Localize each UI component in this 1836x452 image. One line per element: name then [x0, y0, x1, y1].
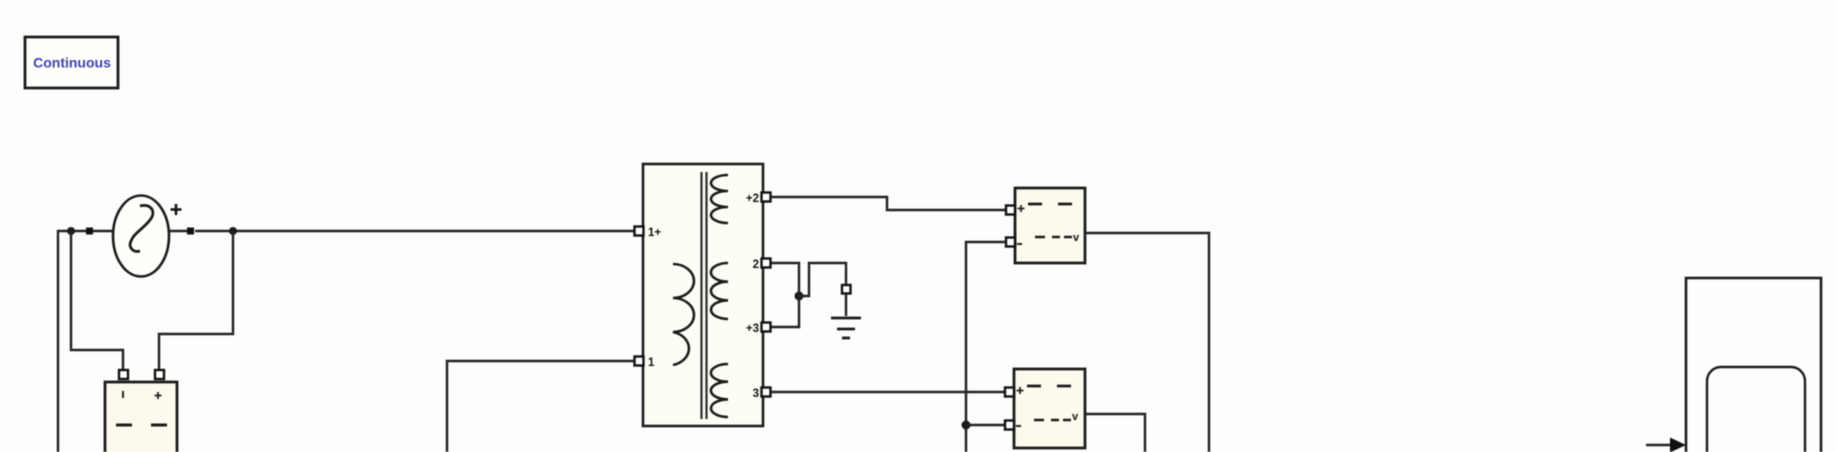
ground G1	[831, 285, 861, 338]
primary winding	[673, 264, 694, 365]
wire: VM3 output v to bottom edge	[1085, 414, 1145, 452]
svg-text:1: 1	[648, 357, 655, 369]
powergui block "Continuous"	[25, 37, 118, 88]
port +3	[762, 323, 771, 332]
wire: right of AC source to transformer port 1+	[195, 230, 636, 232]
wire: transformer port 1 feed from bottom edge	[447, 361, 634, 452]
wire: junction to VM1 right port	[159, 231, 233, 371]
voltage measurement VM1 (below source)	[105, 370, 177, 452]
svg-text:v: v	[1073, 232, 1080, 244]
wire: junction to VM3 minus port	[966, 424, 1006, 426]
port 2	[762, 259, 771, 268]
secondary winding 4	[711, 364, 728, 417]
core	[702, 172, 707, 419]
voltage measurement VM2 (top right)	[1006, 188, 1085, 263]
svg-text:+2: +2	[746, 193, 759, 205]
secondary winding 3	[711, 263, 728, 319]
wire: VM2 minus port down to VM3 minus and bottom edge	[966, 242, 1006, 452]
node: junction right of AC source	[229, 227, 237, 235]
wire: port 2 to junction	[771, 263, 799, 296]
linear transformer T1	[635, 164, 771, 426]
wire: left drop from main net to bottom edge	[58, 231, 89, 452]
svg-text:v: v	[1072, 411, 1079, 423]
svg-text:1+: 1+	[648, 227, 661, 239]
svg-text:Continuous: Continuous	[33, 55, 111, 71]
node: junction of winding-2 net	[795, 292, 804, 301]
AC voltage source V1	[86, 196, 194, 277]
svg-text:3: 3	[753, 388, 759, 400]
svg-text:+3: +3	[746, 323, 759, 335]
wire: scope input with arrowhead	[1646, 444, 1671, 446]
voltage measurement VM3 (bottom right)	[1005, 369, 1085, 448]
wire: port 3 to VM3 plus port	[771, 391, 1006, 393]
node: junction on minus net	[962, 421, 971, 430]
secondary winding 2	[711, 175, 728, 223]
port 3	[762, 388, 771, 397]
wire: VM2 output v to bottom edge	[1085, 233, 1209, 452]
port 1+	[635, 227, 644, 236]
port 1	[635, 357, 644, 366]
node: junction left of AC source	[67, 227, 75, 235]
wire: junction to ground	[799, 263, 846, 296]
wire: port +2 to VM2 plus port	[771, 197, 1006, 210]
wire: port +3 to junction	[771, 296, 799, 327]
port +2	[762, 193, 771, 202]
scope block	[1686, 278, 1821, 452]
svg-text:2: 2	[753, 259, 759, 271]
wire: junction to VM1 left port	[71, 231, 123, 371]
